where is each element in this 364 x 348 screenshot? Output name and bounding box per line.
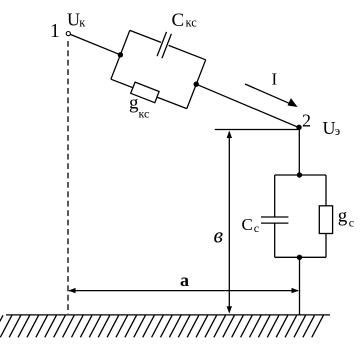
wire: bottom branch left segment <box>111 79 133 88</box>
wire node2 down to shunt network <box>298 128 300 175</box>
wire: left branch upper segment <box>274 175 276 217</box>
extension line from node 2 <box>215 129 298 131</box>
wire: top branch right segment <box>169 45 206 59</box>
svg-text:a: a <box>180 270 189 290</box>
conductance gс box <box>319 206 332 234</box>
svg-text:g: g <box>338 206 348 227</box>
wire: right branch upper segment <box>325 175 327 206</box>
svg-text:C: C <box>242 215 253 234</box>
node 2 dot <box>296 125 301 130</box>
junction dot right of coupling network <box>194 82 199 87</box>
svg-text:C: C <box>172 10 185 31</box>
svg-text:1: 1 <box>50 21 60 42</box>
capacitor Cс plates <box>261 216 288 218</box>
svg-text:э: э <box>335 124 340 138</box>
ground line <box>6 314 330 316</box>
svg-text:2: 2 <box>302 110 311 130</box>
conductance gкс box <box>131 82 159 103</box>
wire: bottom edge of shunt network <box>275 256 326 258</box>
junction dot bottom of shunt network <box>297 255 302 260</box>
wire: right edge of coupling network <box>187 60 206 109</box>
wire: bottom branch right segment <box>157 97 187 109</box>
wire: top edge of shunt network <box>275 174 326 176</box>
wire: right branch lower segment <box>325 234 327 258</box>
svg-text:g: g <box>129 93 139 114</box>
wire from shunt network to ground <box>299 257 301 314</box>
node 1 terminal circle <box>66 31 70 35</box>
svg-text:кс: кс <box>139 107 150 121</box>
svg-text:с: с <box>254 221 259 235</box>
wire right junction to node 2 <box>196 84 299 127</box>
dashed projection line from node 1 to ground <box>67 41 69 314</box>
ground hatching <box>0 315 323 337</box>
wire: top branch left segment <box>130 30 161 42</box>
svg-text:U: U <box>67 10 80 30</box>
junction dot top of shunt network <box>297 172 302 177</box>
capacitor Cкс plates <box>157 32 166 56</box>
svg-text:кс: кс <box>186 16 198 30</box>
wire: left branch lower segment <box>274 223 276 257</box>
wire: left edge of coupling network <box>111 30 130 79</box>
svg-text:с: с <box>349 216 354 230</box>
junction dot left of coupling network <box>118 52 123 57</box>
svg-text:к: к <box>79 16 86 30</box>
svg-text:I: I <box>272 69 278 88</box>
current arrow I <box>245 84 292 104</box>
wire node1 to left junction <box>70 34 120 54</box>
svg-text:в: в <box>214 223 224 248</box>
dimension в: vertical line with arrowheads <box>228 132 230 312</box>
svg-text:U: U <box>323 118 336 138</box>
dimension а: horizontal line with arrowheads <box>69 290 298 292</box>
